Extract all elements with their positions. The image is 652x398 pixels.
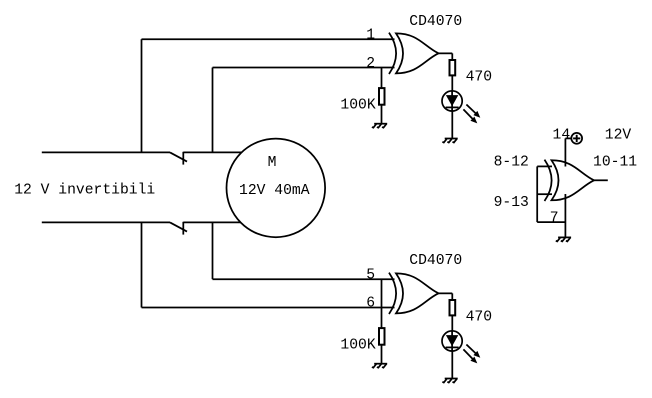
xor gate U1B <box>389 273 439 314</box>
ground pin7 <box>556 237 571 241</box>
wire LED1 to ground <box>451 111 453 139</box>
svg-text:9-13: 9-13 <box>494 195 529 211</box>
wire U1B output horizontal <box>439 292 453 294</box>
LED D2 <box>442 331 480 364</box>
svg-text:14: 14 <box>553 128 571 144</box>
wire input2 top horizontal <box>213 67 395 69</box>
svg-text:CD4070: CD4070 <box>409 14 462 30</box>
svg-text:CD4070: CD4070 <box>409 253 462 269</box>
svg-text:7: 7 <box>550 210 559 226</box>
ground below LED1 <box>442 139 457 143</box>
connector break J1 top <box>170 152 187 165</box>
wire 100K R3 drop <box>381 279 383 328</box>
wire U1A output horizontal <box>439 52 453 54</box>
resistor R3 100K <box>379 328 385 345</box>
wire unused input upper <box>537 165 552 167</box>
svg-text:M: M <box>268 155 277 171</box>
wire R2 to LED1 <box>451 75 453 91</box>
wire U1 output <box>594 179 608 181</box>
wire input5 vertical drop <box>212 222 214 279</box>
wire U1B output vertical <box>451 293 453 300</box>
wire pin7 vertical <box>564 194 566 237</box>
wire input1 top horizontal <box>142 38 395 40</box>
svg-text:100K: 100K <box>340 97 375 113</box>
svg-text:470: 470 <box>466 70 492 86</box>
wire R1 to ground <box>381 105 383 124</box>
svg-text:100K: 100K <box>340 337 375 353</box>
wire motor bottom right segment <box>183 221 248 223</box>
wire input1 vertical drop <box>141 39 143 152</box>
resistor R2 470 <box>450 60 456 75</box>
wire R4 to LED2 <box>451 315 453 331</box>
resistor R4 470 <box>450 300 456 315</box>
wire motor top right segment <box>183 151 248 153</box>
svg-text:12V: 12V <box>605 128 632 144</box>
supply plus symbol <box>571 133 582 144</box>
wire bracket vertical <box>536 166 538 222</box>
LED D1 <box>442 91 480 124</box>
wire input5 horizontal <box>213 278 395 280</box>
wire pin14 jog <box>565 137 571 139</box>
svg-text:470: 470 <box>466 310 492 326</box>
svg-text:12 V invertibili: 12 V invertibili <box>14 183 155 199</box>
wire R3 to ground <box>381 345 383 364</box>
svg-text:10-11: 10-11 <box>593 155 637 171</box>
svg-text:2: 2 <box>366 56 375 72</box>
wire bracket bottom horizontal <box>537 221 565 223</box>
wire U1A output vertical <box>451 53 453 60</box>
svg-text:1: 1 <box>366 28 375 44</box>
wire input6 horizontal <box>142 307 395 309</box>
ground below LED2 <box>442 379 457 383</box>
svg-text:6: 6 <box>366 296 375 312</box>
resistor R1 100K <box>379 88 385 105</box>
svg-text:5: 5 <box>366 268 375 284</box>
ground below R1 <box>372 124 387 128</box>
wire input6 vertical drop <box>141 222 143 307</box>
wire unused input lower <box>537 193 552 195</box>
wire motor bottom left segment <box>42 221 170 223</box>
connector break J2 bottom <box>170 222 187 235</box>
xor gate U1 unused <box>545 160 595 201</box>
svg-text:8-12: 8-12 <box>494 155 529 171</box>
ground below R3 <box>372 364 387 368</box>
xor gate U1A <box>389 33 439 74</box>
wire LED2 to ground <box>451 351 453 379</box>
wire input2 vertical drop <box>212 68 214 153</box>
motor M1 circle <box>226 139 325 238</box>
wire motor top left segment <box>42 151 170 153</box>
wire 100K R1 drop <box>381 68 383 89</box>
wire pin14 vertical <box>564 138 566 166</box>
svg-text:12V 40mA: 12V 40mA <box>239 183 310 199</box>
